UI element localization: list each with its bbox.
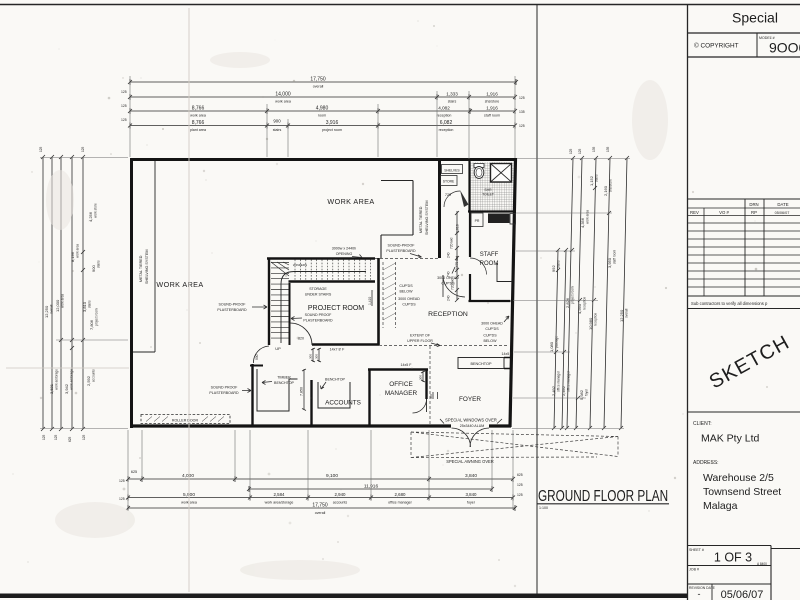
svg-text:stairs: stairs	[595, 174, 599, 182]
svg-text:CUP'DS: CUP'DS	[483, 334, 497, 338]
G_PLAN	[130, 158, 618, 458]
svg-text:2,592: 2,592	[86, 375, 91, 386]
svg-text:125: 125	[54, 434, 58, 440]
svg-text:9OO0: 9OO0	[769, 40, 800, 56]
svg-text:project room: project room	[95, 308, 99, 326]
small 300 dims project door	[311, 348, 321, 362]
svg-text:SHELVING SYSTEM: SHELVING SYSTEM	[425, 200, 429, 235]
bottom dim rowD	[128, 507, 515, 509]
svg-text:stairs: stairs	[448, 100, 457, 104]
office door arc	[413, 399, 427, 413]
svg-text:SHR: SHR	[484, 188, 492, 192]
revision table	[688, 198, 800, 200]
svg-text:TIMBER: TIMBER	[277, 376, 291, 380]
svg-text:300: 300	[309, 354, 313, 359]
svg-text:SOUND-PROOF: SOUND-PROOF	[219, 303, 247, 307]
svg-text:240: 240	[447, 252, 451, 258]
svg-text:DATE: DATE	[777, 202, 788, 207]
shelving line left	[133, 161, 155, 352]
left dim col lines	[43, 157, 83, 429]
svg-text:FOYER: FOYER	[459, 396, 481, 403]
G_ANNOT	[139, 197, 513, 464]
svg-text:3,840: 3,840	[466, 492, 478, 497]
svg-text:-: -	[698, 589, 701, 599]
top dim row3	[130, 110, 515, 112]
svg-text:1:100: 1:100	[539, 506, 548, 510]
svg-text:work area: work area	[61, 294, 65, 308]
svg-text:SOUND PROOF: SOUND PROOF	[211, 386, 239, 390]
svg-text:CUP'DS: CUP'DS	[485, 327, 499, 331]
svg-text:WORK AREA: WORK AREA	[327, 197, 374, 206]
work area notch step y180	[381, 180, 413, 182]
roller door dashed	[141, 415, 230, 424]
svg-text:PLASTERBOARD: PLASTERBOARD	[303, 319, 333, 323]
svg-text:720 lwd: 720 lwd	[450, 237, 454, 249]
svg-text:Sub contractors to verify all: Sub contractors to verify all dimensions…	[691, 301, 768, 306]
svg-text:3,916: 3,916	[326, 120, 339, 126]
svg-text:reception: reception	[583, 297, 587, 310]
svg-text:ADDRESS:: ADDRESS:	[693, 460, 719, 466]
toilet west wall	[468, 161, 470, 212]
svg-text:14x7 8' F: 14x7 8' F	[330, 348, 345, 352]
svg-text:BELOW: BELOW	[484, 339, 498, 343]
svg-text:740: 740	[447, 271, 451, 277]
svg-text:foyer: foyer	[585, 388, 589, 396]
svg-text:Warehouse 2/5: Warehouse 2/5	[703, 472, 774, 484]
svg-text:125: 125	[519, 124, 525, 128]
outer wall left	[130, 158, 133, 428]
office manager west wall	[368, 369, 370, 427]
svg-text:135: 135	[606, 146, 610, 152]
svg-text:1,333: 1,333	[446, 92, 458, 97]
office manager top wall	[368, 368, 428, 370]
svg-text:DRN: DRN	[749, 202, 758, 207]
svg-text:4,356: 4,356	[580, 217, 585, 228]
sheet top border	[0, 4, 800, 6]
svg-text:125: 125	[517, 483, 523, 487]
stair east edge	[289, 283, 291, 345]
svg-text:MAK Pty Ltd: MAK Pty Ltd	[701, 433, 760, 445]
svg-text:125: 125	[578, 148, 582, 154]
svg-text:992: 992	[551, 265, 556, 272]
svg-text:work a/storage: work a/storage	[55, 369, 59, 390]
svg-text:Malaga: Malaga	[703, 500, 738, 512]
svg-text:1,470 lwd: 1,470 lwd	[455, 256, 459, 270]
svg-text:office manager: office manager	[557, 370, 561, 392]
project block top wall	[267, 257, 375, 260]
svg-text:300: 300	[419, 375, 423, 380]
svg-text:12,000: 12,000	[55, 299, 60, 312]
outer wall bottom (entry opening 451-489)	[130, 424, 451, 427]
svg-text:4,000: 4,000	[182, 473, 194, 479]
top extension lines	[130, 76, 515, 159]
svg-text:VO #: VO #	[719, 210, 729, 215]
svg-text:2,492: 2,492	[551, 385, 556, 396]
Special header box	[688, 32, 800, 34]
corridor dim chain labels	[456, 211, 458, 300]
svg-text:PLASTERBOARD: PLASTERBOARD	[217, 308, 247, 312]
svg-text:5,982: 5,982	[579, 389, 584, 400]
svg-text:ROLLER DOOR: ROLLER DOOR	[172, 419, 199, 423]
right col ticks	[552, 156, 629, 430]
svg-text:05/06/07: 05/06/07	[721, 589, 764, 600]
opening dashed in top wall	[375, 258, 438, 260]
svg-text:ROOM: ROOM	[480, 261, 499, 267]
svg-text:720 lwd: 720 lwd	[451, 278, 455, 290]
svg-text:STAFF: STAFF	[480, 252, 499, 258]
svg-text:4,560: 4,560	[577, 303, 582, 314]
svg-text:MANAGER: MANAGER	[385, 390, 418, 397]
svg-text:1,010: 1,010	[456, 224, 460, 233]
stair bottom door arc	[253, 346, 269, 363]
outer wall top	[130, 158, 516, 161]
svg-text:Townsend Street: Townsend Street	[703, 486, 781, 498]
svg-text:stairs: stairs	[97, 260, 101, 268]
svg-text:© COPYRIGHT: © COPYRIGHT	[694, 42, 739, 50]
STORE box	[441, 176, 458, 186]
U bench accounts left	[257, 369, 298, 411]
horizontal fold line left	[6, 367, 129, 369]
PR box	[471, 213, 483, 227]
svg-text:2,492: 2,492	[561, 385, 566, 396]
svg-text:125: 125	[81, 146, 85, 152]
svg-text:stairs: stairs	[557, 260, 561, 268]
svg-text:project room: project room	[571, 286, 575, 304]
svg-text:125: 125	[519, 96, 525, 100]
svg-text:25x3440 ALUM: 25x3440 ALUM	[460, 424, 485, 428]
svg-text:2,160: 2,160	[603, 185, 608, 196]
svg-text:METAL TIERED: METAL TIERED	[419, 206, 423, 233]
svg-text:SHELVING SYSTEM: SHELVING SYSTEM	[145, 249, 149, 284]
client box	[688, 411, 800, 413]
svg-text:UP: UP	[275, 346, 281, 351]
svg-text:EXTENT OF: EXTENT OF	[410, 334, 431, 338]
svg-text:Special: Special	[732, 10, 778, 26]
svg-text:work area: work area	[586, 210, 590, 224]
svg-text:2,826: 2,826	[565, 297, 570, 308]
svg-text:7,806: 7,806	[89, 319, 94, 330]
svg-text:staff room: staff room	[484, 114, 500, 118]
svg-text:METAL TIERED: METAL TIERED	[139, 255, 143, 282]
svg-text:125: 125	[119, 479, 125, 483]
SHELVES box	[442, 165, 463, 174]
staff room bench L	[497, 263, 512, 282]
corridor door arc	[443, 275, 465, 297]
revision date box	[688, 583, 772, 585]
svg-text:office manager: office manager	[567, 370, 571, 392]
left col horizontal extensions	[40, 158, 128, 429]
svg-text:3,840: 3,840	[465, 473, 477, 479]
svg-text:14x5 F: 14x5 F	[401, 363, 413, 367]
bottom dim rowC	[128, 497, 513, 499]
svg-text:125: 125	[42, 434, 46, 440]
svg-text:JOB #: JOB #	[689, 568, 699, 572]
notch y235	[381, 234, 413, 236]
svg-text:UPPER FLOOR: UPPER FLOOR	[407, 339, 433, 343]
svg-text:4,082: 4,082	[438, 106, 450, 111]
svg-text:3,581: 3,581	[49, 383, 54, 394]
svg-text:CUP'DS: CUP'DS	[402, 303, 416, 307]
svg-text:125: 125	[121, 118, 127, 122]
svg-text:reception: reception	[594, 313, 598, 326]
svg-text:work area: work area	[275, 100, 291, 104]
svg-text:staff room: staff room	[613, 250, 617, 264]
svg-text:REV: REV	[690, 210, 699, 215]
svg-text:2,680: 2,680	[395, 492, 407, 497]
svg-text:work store: work store	[94, 203, 98, 218]
notch vertical x413	[412, 181, 414, 236]
svg-text:shs/store: shs/store	[485, 100, 500, 104]
svg-text:625: 625	[517, 473, 523, 477]
stairs vertical run treads	[271, 263, 289, 339]
top dim row2	[130, 96, 515, 98]
svg-text:SOUND PROOF: SOUND PROOF	[305, 313, 333, 317]
svg-text:14,000: 14,000	[275, 92, 291, 98]
svg-text:SPECIAL WINDOWS OVER: SPECIAL WINDOWS OVER	[445, 418, 497, 423]
vertical fold line	[188, 8, 190, 592]
svg-text:12,250: 12,250	[44, 305, 49, 318]
staff room west wall w door gap	[469, 212, 471, 257]
title block left border	[687, 5, 689, 600]
svg-text:SHEET #: SHEET #	[689, 548, 704, 552]
svg-text:300: 300	[315, 354, 319, 359]
svg-text:SKETCH: SKETCH	[706, 331, 794, 393]
svg-text:shs/store: shs/store	[609, 179, 613, 192]
svg-text:BENCHTOP: BENCHTOP	[325, 378, 346, 382]
svg-text:PROJECT ROOM: PROJECT ROOM	[308, 305, 364, 312]
svg-text:625: 625	[131, 470, 137, 474]
svg-text:9,100: 9,100	[326, 473, 338, 479]
staff room south wall	[469, 300, 511, 302]
svg-text:passage: passage	[555, 336, 559, 348]
awning dashed outline	[411, 432, 618, 458]
1410 dim project	[371, 290, 373, 306]
7850 dim vertical	[302, 369, 306, 411]
copyright row	[688, 56, 800, 58]
left col ticks	[41, 155, 85, 431]
svg-text:3000 OHEAD: 3000 OHEAD	[398, 297, 420, 301]
scan smudges	[46, 52, 668, 580]
svg-text:overall: overall	[625, 308, 629, 318]
entry double door arcs	[452, 428, 471, 447]
svg-text:1,916: 1,916	[486, 92, 498, 97]
svg-text:3000 OHEAD: 3000 OHEAD	[481, 322, 503, 326]
svg-text:240: 240	[447, 295, 451, 301]
svg-text:CLIENT:: CLIENT:	[693, 421, 712, 427]
svg-text:STORAGE: STORAGE	[309, 287, 327, 291]
svg-text:3000w x 2440h: 3000w x 2440h	[332, 247, 356, 251]
sheet number box	[688, 545, 772, 547]
bottom extension lines	[128, 430, 513, 510]
svg-text:6,082: 6,082	[440, 120, 453, 126]
svg-text:reception: reception	[439, 128, 454, 132]
svg-text:125: 125	[121, 90, 127, 94]
svg-text:4,256: 4,256	[88, 211, 93, 222]
svg-text:1,410: 1,410	[368, 297, 372, 305]
top dim row1 17750	[130, 81, 516, 83]
svg-text:TOILET: TOILET	[482, 193, 494, 197]
svg-text:900: 900	[91, 265, 96, 272]
svg-text:3,942: 3,942	[64, 383, 69, 394]
bench accounts right	[318, 382, 350, 408]
svg-text:125: 125	[39, 146, 43, 152]
svg-text:reception: reception	[437, 114, 452, 118]
wall x311.5 accounts	[310, 380, 312, 427]
svg-text:3,810: 3,810	[82, 301, 87, 312]
svg-text:OFFICE: OFFICE	[389, 381, 412, 388]
project room east wall	[377, 258, 380, 345]
svg-text:8,766: 8,766	[192, 106, 205, 112]
svg-text:17,750: 17,750	[310, 77, 326, 83]
svg-text:work a/storage: work a/storage	[70, 369, 74, 390]
storage front wall under stairs	[289, 280, 376, 282]
svg-text:accounts: accounts	[333, 501, 348, 505]
G_DIMS	[39, 76, 630, 515]
office manager east wall	[425, 369, 427, 399]
svg-text:foyer: foyer	[467, 501, 476, 505]
stairs upper run treads (dashed above cut)	[295, 260, 371, 281]
lower west wall x252.5	[251, 364, 253, 427]
right dim col lines	[554, 158, 627, 428]
toilet room tile floor	[471, 162, 514, 211]
notch vertical x381	[380, 235, 382, 258]
svg-text:PLASTERBOARD: PLASTERBOARD	[386, 249, 416, 253]
svg-text:1 OF 3: 1 OF 3	[714, 551, 752, 565]
svg-text:125: 125	[517, 493, 523, 497]
svg-text:overall: overall	[50, 304, 54, 314]
svg-text:SHELVES: SHELVES	[444, 169, 460, 173]
stairs winder corner	[271, 262, 289, 276]
svg-text:1,916: 1,916	[486, 106, 498, 111]
stair west wall	[268, 258, 270, 345]
staff room door arc	[470, 258, 487, 275]
svg-text:UNDER STAIRS: UNDER STAIRS	[305, 293, 332, 297]
svg-text:2,584: 2,584	[274, 492, 286, 497]
svg-text:CUP'DS: CUP'DS	[399, 284, 413, 288]
svg-text:900: 900	[273, 119, 281, 124]
benchtop box foyer	[458, 358, 504, 369]
small dims office door south	[433, 392, 438, 399]
svg-text:14x5 F: 14x5 F	[502, 352, 514, 356]
svg-text:OPENING: OPENING	[336, 252, 353, 256]
HWS unit black	[488, 214, 510, 224]
svg-text:WORK AREA: WORK AREA	[156, 280, 203, 289]
svg-text:17,750: 17,750	[312, 503, 328, 509]
svg-text:05/06/07: 05/06/07	[775, 211, 790, 215]
G_TITLEBLOCK	[538, 10, 800, 600]
extent of upper floor dashed	[379, 345, 509, 347]
svg-text:STORE: STORE	[443, 180, 455, 184]
svg-text:135: 135	[519, 110, 525, 114]
svg-text:GROUND FLOOR PLAN: GROUND FLOOR PLAN	[538, 487, 668, 504]
svg-text:overall: overall	[313, 85, 324, 89]
wall stair block west x439.5	[438, 161, 441, 258]
svg-text:BENCHTOP: BENCHTOP	[274, 381, 295, 385]
svg-text:SPECIAL AWNING OVER: SPECIAL AWNING OVER	[446, 459, 494, 464]
svg-text:accounts: accounts	[92, 369, 96, 382]
svg-text:135: 135	[592, 146, 596, 152]
svg-text:work area: work area	[76, 244, 80, 258]
outer wall east (slight scan skew)	[510, 158, 516, 427]
svg-text:project room: project room	[322, 128, 342, 132]
svg-text:300: 300	[429, 394, 433, 399]
svg-text:stairs: stairs	[273, 128, 282, 132]
store door arc + leaf	[444, 191, 460, 207]
project room south wall	[312, 343, 379, 346]
svg-text:REVISION DATE: REVISION DATE	[689, 586, 716, 590]
svg-text:1,152: 1,152	[589, 175, 594, 186]
svg-text:625: 625	[68, 436, 72, 442]
svg-text:plant area: plant area	[190, 128, 206, 132]
job number box	[688, 565, 772, 567]
svg-text:12,250: 12,250	[619, 309, 624, 322]
svg-text:work area: work area	[190, 114, 206, 118]
overhead cupboard dashed strip	[383, 262, 396, 328]
toilet pan	[474, 164, 484, 168]
vertical divider line	[536, 5, 538, 594]
shower cubicle	[491, 164, 512, 183]
svg-text:10,980: 10,980	[588, 317, 593, 330]
toilet bottom wall	[468, 210, 515, 212]
svg-text:SOUND-PROOF: SOUND-PROOF	[388, 244, 416, 248]
svg-text:RP: RP	[751, 210, 757, 215]
svg-text:1,080: 1,080	[549, 341, 554, 352]
stairs rail	[281, 272, 366, 344]
svg-text:125: 125	[119, 497, 125, 501]
svg-text:work area/storage: work area/storage	[265, 501, 294, 505]
svg-text:3,950: 3,950	[607, 257, 612, 268]
svg-text:stairs: stairs	[88, 300, 92, 308]
svg-text:RECEPTION: RECEPTION	[428, 311, 468, 318]
svg-text:125: 125	[569, 148, 573, 154]
sheet bottom thick border	[0, 594, 688, 599]
svg-text:2,940: 2,940	[335, 492, 347, 497]
bottom dim rowB	[249, 488, 492, 490]
svg-text:office manager: office manager	[388, 501, 413, 505]
svg-text:900: 900	[255, 354, 259, 360]
bottom dim rowA	[128, 478, 513, 480]
svg-text:8,766: 8,766	[192, 120, 205, 126]
project room door arc	[290, 323, 312, 345]
right col horizontal extensions	[512, 159, 630, 429]
svg-text:125: 125	[121, 104, 127, 108]
svg-text:BELOW: BELOW	[400, 290, 414, 294]
top dim row4	[130, 125, 515, 127]
svg-text:7,850: 7,850	[300, 387, 304, 396]
svg-text:125: 125	[82, 434, 86, 440]
svg-text:PLASTERBOARD: PLASTERBOARD	[209, 391, 239, 395]
svg-text:4,980: 4,980	[316, 106, 329, 112]
small 300 dim office door	[421, 371, 425, 382]
svg-text:PR: PR	[475, 219, 480, 223]
svg-text:BENCHTOP: BENCHTOP	[470, 362, 491, 366]
svg-text:room: room	[318, 114, 326, 118]
svg-text:8,196: 8,196	[70, 251, 75, 262]
svg-text:ACCOUNTS: ACCOUNTS	[325, 400, 361, 407]
svg-text:overall: overall	[315, 511, 326, 515]
